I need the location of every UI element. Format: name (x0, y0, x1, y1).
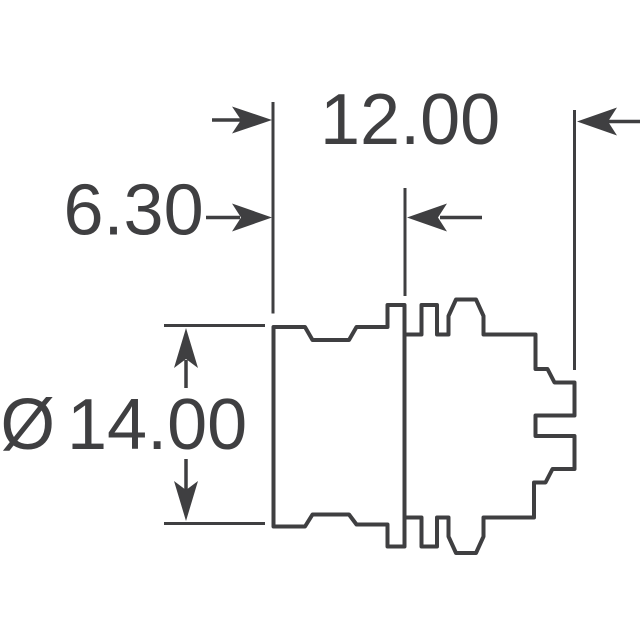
svg-text:14.00: 14.00 (67, 385, 247, 465)
dimension arrow 12.00 right (points left at x=574.5) (577, 108, 640, 136)
extension line top for dia 14.00 (164, 324, 265, 327)
internal vertical edge of body (403, 305, 407, 547)
dimension arrow 12.00 left (points right at x=273) (212, 107, 272, 134)
dimension arrow 14.00 up (points up at y=325.5) (174, 328, 198, 388)
dimension arrow 14.00 down (points down at y=523.5) (174, 459, 198, 521)
svg-text:12.00: 12.00 (320, 80, 500, 160)
extension line middle (x=405) (404, 188, 407, 296)
dimension arrow 6.30 right (points left at x=405) (407, 204, 482, 232)
svg-text:Ø: Ø (1, 385, 56, 465)
part outline (component body silhouette) (274, 300, 575, 554)
extension line bottom for dia 14.00 (164, 522, 265, 525)
extension line left (x=273) (272, 102, 275, 314)
extension line right (x=574.5) (573, 110, 576, 370)
svg-text:6.30: 6.30 (64, 171, 204, 251)
dimension arrow 6.30 left (points right at x=273) (206, 204, 272, 232)
